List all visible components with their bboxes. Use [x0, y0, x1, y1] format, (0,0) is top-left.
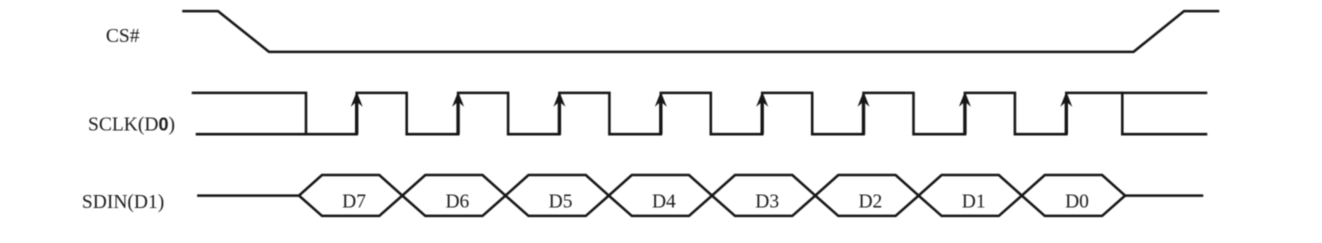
svg-text:D4: D4	[652, 192, 676, 213]
wire SCLK bold rising-edge shaft 3	[558, 97, 561, 134]
wire SCLK clock pulse 4	[661, 93, 762, 134]
wire SCLK bold rising-edge shaft 8	[1065, 97, 1068, 134]
wire SCLK clock pulse 5	[762, 93, 863, 134]
node SCLK rising-edge arrow 7	[959, 92, 971, 107]
wire SCLK clock pulse 2	[458, 93, 559, 134]
svg-text:D2: D2	[858, 192, 882, 213]
wire SCLK low rail right	[1122, 133, 1206, 136]
svg-text:D0: D0	[1065, 192, 1089, 213]
svg-text:SCLK(D0): SCLK(D0)	[88, 114, 175, 135]
wire SCLK bold rising-edge shaft 4	[659, 97, 662, 134]
node SCLK rising-edge arrow 6	[858, 92, 870, 107]
svg-text:CS#: CS#	[106, 26, 140, 47]
wire SCLK bold rising-edge shaft 6	[862, 97, 865, 134]
node data cell D2 hexagon	[815, 175, 918, 216]
node data cell D1 hexagon	[919, 175, 1022, 216]
wire SCLK clock pulse 6	[864, 93, 965, 134]
wire SCLK clock pulse 3	[559, 93, 660, 134]
wire SCLK clock pulse 1	[357, 93, 458, 134]
svg-text:D3: D3	[755, 192, 779, 213]
wire SCLK bold rising-edge shaft 7	[963, 97, 966, 134]
wire SCLK clock pulse 7	[965, 93, 1066, 134]
node SCLK rising-edge arrow 4	[655, 92, 667, 107]
node data cell D5 hexagon	[506, 175, 609, 216]
node SCLK rising-edge arrow 8	[1060, 92, 1072, 107]
wire SDIN lead-in line	[198, 194, 299, 197]
svg-text:SDIN(D1): SDIN(D1)	[82, 192, 164, 213]
svg-text:D5: D5	[549, 192, 573, 213]
svg-text:D7: D7	[342, 192, 366, 213]
node data cell D0 hexagon	[1022, 175, 1125, 216]
node SCLK rising-edge arrow 2	[452, 92, 464, 107]
signal CS# waveform	[184, 11, 1219, 52]
svg-text:D1: D1	[962, 192, 986, 213]
wire SCLK bold rising-edge shaft 5	[761, 97, 764, 134]
wire SDIN lead-out line	[1125, 194, 1202, 197]
node SCLK rising-edge arrow 3	[553, 92, 565, 107]
node data cell D7 hexagon	[299, 175, 402, 216]
wire SCLK bold rising-edge shaft 1	[355, 97, 358, 134]
wire SCLK low rail left	[197, 133, 357, 136]
node SCLK rising-edge arrow 5	[756, 92, 768, 107]
node data cell D4 hexagon	[609, 175, 712, 216]
wire SCLK clock pulse 8	[1066, 93, 1206, 134]
wire SCLK bold rising-edge shaft 2	[456, 97, 459, 134]
node data cell D3 hexagon	[712, 175, 815, 216]
wire SCLK trailing vertical divider	[1121, 93, 1124, 134]
node SCLK rising-edge arrow 1	[351, 92, 363, 107]
node data cell D6 hexagon	[402, 175, 505, 216]
svg-text:D6: D6	[445, 192, 469, 213]
wire SCLK high rail left with first falling edge	[193, 93, 306, 134]
